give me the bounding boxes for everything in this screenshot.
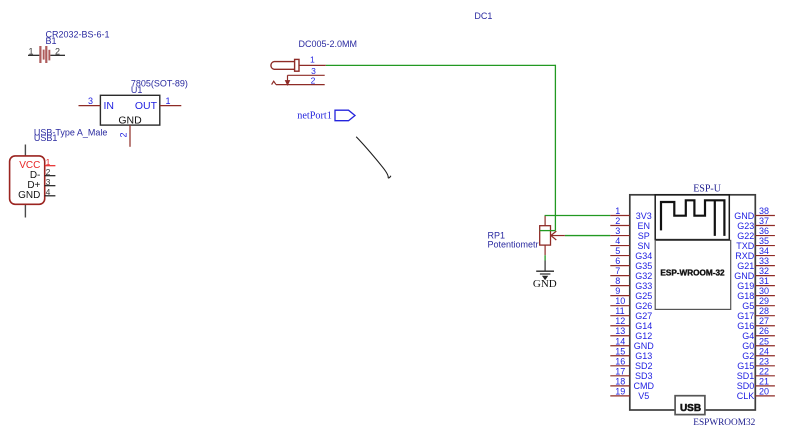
svg-text:31: 31	[759, 276, 769, 286]
svg-text:G32: G32	[635, 271, 652, 281]
svg-text:ESP-WROOM-32: ESP-WROOM-32	[660, 269, 725, 278]
svg-text:20: 20	[759, 386, 769, 396]
svg-text:G23: G23	[737, 221, 754, 231]
svg-text:G17: G17	[737, 311, 754, 321]
svg-text:G34: G34	[635, 251, 652, 261]
svg-text:14: 14	[615, 336, 625, 346]
svg-text:G33: G33	[635, 281, 652, 291]
svg-text:17: 17	[615, 366, 625, 376]
svg-text:G0: G0	[742, 341, 754, 351]
svg-text:1: 1	[165, 96, 170, 106]
svg-text:27: 27	[759, 316, 769, 326]
svg-text:CMD: CMD	[634, 381, 655, 391]
svg-text:29: 29	[759, 296, 769, 306]
svg-text:G12: G12	[635, 331, 652, 341]
svg-text:GND: GND	[533, 278, 557, 290]
svg-text:EN: EN	[638, 221, 651, 231]
svg-text:38: 38	[759, 206, 769, 216]
svg-text:GND: GND	[734, 211, 755, 221]
svg-text:4: 4	[615, 236, 620, 246]
svg-text:G5: G5	[742, 301, 754, 311]
svg-text:16: 16	[615, 356, 625, 366]
svg-text:GND: GND	[734, 271, 755, 281]
svg-text:26: 26	[759, 326, 769, 336]
svg-text:G18: G18	[737, 291, 754, 301]
svg-text:G16: G16	[737, 321, 754, 331]
svg-text:24: 24	[759, 346, 769, 356]
svg-text:36: 36	[759, 226, 769, 236]
svg-text:10: 10	[615, 296, 625, 306]
svg-text:G22: G22	[737, 231, 754, 241]
svg-text:G21: G21	[737, 261, 754, 271]
svg-text:3: 3	[46, 177, 51, 187]
svg-text:USB: USB	[680, 403, 701, 414]
svg-text:G14: G14	[635, 321, 652, 331]
svg-text:3V3: 3V3	[636, 211, 652, 221]
svg-text:G2: G2	[742, 351, 754, 361]
svg-text:GND: GND	[118, 114, 142, 126]
svg-text:ESP-U: ESP-U	[693, 184, 722, 195]
svg-text:5: 5	[615, 246, 620, 256]
svg-text:G27: G27	[635, 311, 652, 321]
svg-text:GND: GND	[18, 190, 40, 201]
svg-text:7: 7	[615, 266, 620, 276]
svg-text:13: 13	[615, 326, 625, 336]
svg-text:22: 22	[759, 366, 769, 376]
svg-text:G25: G25	[635, 291, 652, 301]
svg-text:37: 37	[759, 216, 769, 226]
svg-text:35: 35	[759, 236, 769, 246]
svg-text:32: 32	[759, 266, 769, 276]
svg-text:G35: G35	[635, 261, 652, 271]
svg-text:1: 1	[46, 157, 51, 167]
svg-text:USB1: USB1	[34, 133, 58, 143]
svg-text:8: 8	[615, 276, 620, 286]
svg-text:12: 12	[615, 316, 625, 326]
svg-text:SD3: SD3	[635, 371, 653, 381]
svg-text:1: 1	[28, 46, 33, 56]
svg-text:21: 21	[759, 376, 769, 386]
svg-text:2: 2	[55, 46, 60, 56]
svg-text:DC1: DC1	[474, 11, 492, 21]
svg-text:15: 15	[615, 346, 625, 356]
svg-text:G13: G13	[635, 351, 652, 361]
svg-text:CLK: CLK	[737, 391, 755, 401]
svg-text:25: 25	[759, 336, 769, 346]
svg-text:OUT: OUT	[135, 100, 158, 112]
svg-text:9: 9	[615, 286, 620, 296]
svg-text:netPort1: netPort1	[297, 111, 332, 122]
svg-text:6: 6	[615, 256, 620, 266]
svg-text:2: 2	[615, 216, 620, 226]
svg-text:G4: G4	[742, 331, 754, 341]
svg-text:3: 3	[88, 96, 93, 106]
svg-text:RXD: RXD	[735, 251, 755, 261]
svg-text:30: 30	[759, 286, 769, 296]
svg-text:1: 1	[310, 54, 315, 64]
svg-text:B1: B1	[46, 36, 57, 46]
svg-text:28: 28	[759, 306, 769, 316]
svg-text:19: 19	[615, 386, 625, 396]
svg-text:U1: U1	[131, 85, 143, 95]
svg-text:11: 11	[615, 306, 624, 316]
svg-text:IN: IN	[104, 100, 115, 112]
svg-text:SP: SP	[638, 231, 650, 241]
svg-text:SD2: SD2	[635, 361, 653, 371]
svg-text:DC005-2.0MM: DC005-2.0MM	[299, 39, 358, 49]
svg-text:SD1: SD1	[737, 371, 755, 381]
svg-text:23: 23	[759, 356, 769, 366]
svg-text:2: 2	[119, 132, 129, 137]
svg-text:3: 3	[615, 226, 620, 236]
svg-text:SN: SN	[638, 241, 651, 251]
svg-text:G26: G26	[635, 301, 652, 311]
svg-text:18: 18	[615, 376, 625, 386]
svg-text:2: 2	[311, 76, 316, 86]
svg-text:ESPWROOM32: ESPWROOM32	[693, 418, 755, 428]
svg-text:TXD: TXD	[736, 241, 755, 251]
svg-text:1: 1	[615, 206, 620, 216]
svg-text:V5: V5	[638, 391, 649, 401]
svg-text:34: 34	[759, 246, 769, 256]
svg-text:4: 4	[46, 187, 51, 197]
svg-text:2: 2	[46, 167, 51, 177]
svg-text:G15: G15	[737, 361, 754, 371]
svg-text:GND: GND	[634, 341, 655, 351]
svg-text:Potentiometr: Potentiometr	[488, 240, 539, 250]
svg-text:33: 33	[759, 256, 769, 266]
svg-text:G19: G19	[737, 281, 754, 291]
svg-text:SD0: SD0	[737, 381, 755, 391]
